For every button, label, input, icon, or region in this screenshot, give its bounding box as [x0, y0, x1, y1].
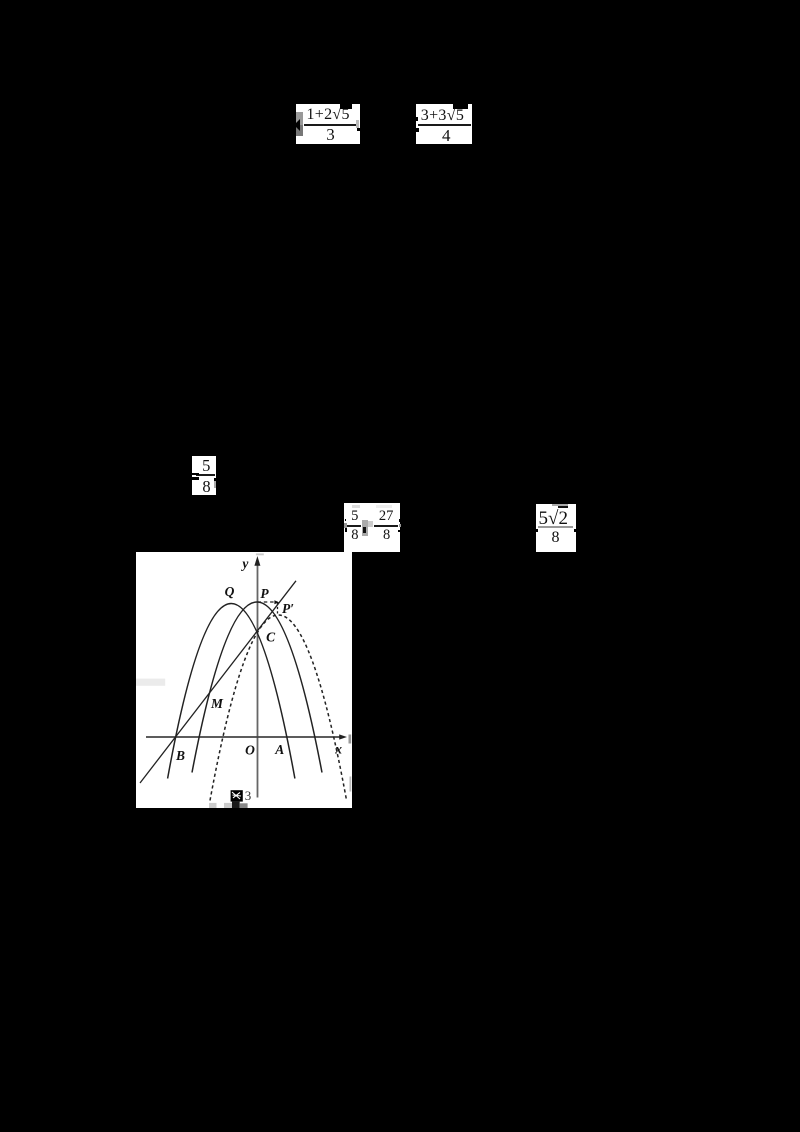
translated parabola P' (dashed)	[210, 615, 347, 800]
caption glyph (black square with scribbles)	[231, 790, 243, 801]
figure box	[136, 552, 352, 809]
parabola Q (solid, vertex left of y-axis)	[168, 603, 295, 778]
svg-text:C: C	[266, 629, 276, 644]
parabola P (solid, vertex on y-axis)	[192, 602, 322, 772]
scan smudge right of x-axis arrow	[348, 734, 351, 743]
line through B, M, C	[140, 580, 296, 782]
svg-text:O: O	[245, 742, 255, 757]
x-axis arrowhead	[339, 734, 347, 739]
svg-text:M: M	[210, 695, 224, 710]
bottom-edge artifact light gray left	[209, 802, 216, 808]
svg-text:B: B	[175, 747, 185, 762]
y-axis arrowhead	[254, 556, 260, 566]
dashed vertical to vertex P'	[276, 602, 278, 614]
svg-text:Q: Q	[225, 584, 235, 599]
small arrowhead on dashed translation path	[274, 600, 278, 604]
scan smudge above y-axis arrow	[256, 553, 264, 555]
svg-text:P′: P′	[282, 601, 294, 616]
y-axis	[256, 560, 258, 797]
bottom-edge artifact black	[232, 801, 240, 808]
svg-text:x: x	[334, 741, 342, 756]
scan smudge right edge	[349, 776, 351, 791]
svg-text:3: 3	[245, 787, 252, 802]
scan smudge left	[136, 678, 165, 685]
dashed horizontal from vertex P	[257, 601, 277, 603]
fraction box (1+2*sqrt5)/3	[296, 104, 361, 145]
svg-text:P: P	[260, 586, 269, 601]
bottom-edge artifact light gray	[224, 802, 232, 807]
fraction box (3+3*sqrt5)/4	[416, 104, 472, 145]
fraction box 5/8 , 27/8	[344, 503, 400, 551]
fraction box 5*sqrt2/8	[536, 504, 576, 552]
x-axis	[146, 735, 340, 737]
fraction box 5/8	[192, 456, 216, 495]
svg-text:A: A	[274, 742, 284, 757]
bottom-edge artifact gray	[240, 803, 248, 808]
svg-text:y: y	[240, 555, 249, 570]
